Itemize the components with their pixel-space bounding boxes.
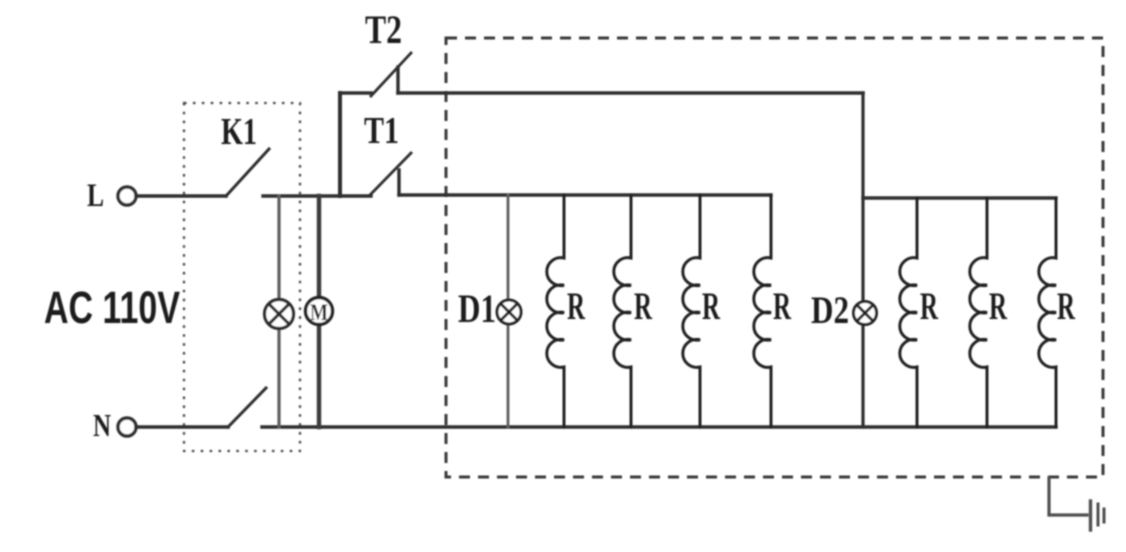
switch T1 contact stub xyxy=(397,170,400,195)
wire T2 top run xyxy=(398,91,863,95)
wire ground lead xyxy=(1049,478,1087,515)
resistor R2 xyxy=(614,195,631,427)
svg-text:R: R xyxy=(989,285,1008,328)
wire D1 branch xyxy=(507,195,510,427)
svg-text:R: R xyxy=(702,285,721,328)
switch K1 pole B blade xyxy=(228,388,266,427)
motor M1 xyxy=(306,298,333,326)
switch T2 blade xyxy=(371,53,411,96)
wire L feed xyxy=(136,194,226,198)
switch T1 blade xyxy=(370,153,411,195)
svg-text:D1: D1 xyxy=(458,286,496,331)
svg-text:T1: T1 xyxy=(364,110,399,152)
svg-text:R: R xyxy=(567,285,586,328)
lamp D1 xyxy=(497,300,521,324)
svg-text:R: R xyxy=(920,285,939,328)
svg-text:M: M xyxy=(310,300,328,325)
switch K1 pole A blade xyxy=(226,149,269,196)
svg-text:AC 110V: AC 110V xyxy=(44,282,180,333)
svg-text:K1: K1 xyxy=(221,111,257,153)
resistor R5 xyxy=(900,198,917,427)
terminal L xyxy=(118,187,136,205)
resistor R4 xyxy=(754,195,771,427)
svg-text:L: L xyxy=(87,178,104,214)
svg-text:R: R xyxy=(1057,285,1076,328)
wire T2 left xyxy=(340,91,371,95)
svg-text:D2: D2 xyxy=(811,289,849,332)
wire T1 output bus (left group top) xyxy=(399,193,771,196)
terminal N xyxy=(118,418,136,436)
lamp D2 xyxy=(854,302,877,325)
wire N feed xyxy=(136,425,228,429)
svg-text:R: R xyxy=(634,285,653,328)
wire bottom bus xyxy=(262,425,1056,428)
wire T2 riser xyxy=(338,93,342,196)
svg-text:T2: T2 xyxy=(365,7,402,52)
wire lamp branch xyxy=(277,196,280,427)
wire right group top bus xyxy=(863,196,1056,199)
wire T2 drop to D2 and bottom bus xyxy=(861,93,864,427)
dotted relay box K1 xyxy=(184,103,300,451)
wire motor branch xyxy=(317,196,321,427)
switch T2 contact stub xyxy=(396,67,399,93)
resistor R6 xyxy=(970,198,987,427)
svg-text:N: N xyxy=(93,407,111,443)
dashed enclosure box xyxy=(446,38,1103,477)
svg-text:R: R xyxy=(773,285,792,328)
resistor R1 xyxy=(547,195,564,427)
ground xyxy=(1091,501,1105,530)
wire L contact to junction xyxy=(263,194,371,197)
lamp HL xyxy=(265,300,294,329)
resistor R3 xyxy=(683,195,700,427)
resistor R7 xyxy=(1039,198,1056,427)
